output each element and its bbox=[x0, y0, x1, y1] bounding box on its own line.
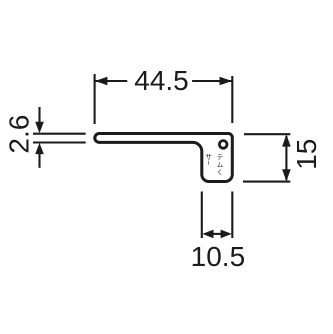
svg-text:2.6: 2.6 bbox=[3, 115, 34, 154]
svg-text:テ: テ bbox=[217, 154, 223, 161]
hole bbox=[219, 141, 227, 149]
bottom dimension 10.5 bbox=[202, 192, 233, 239]
svg-text:44.5: 44.5 bbox=[134, 65, 189, 96]
svg-text:15: 15 bbox=[291, 139, 322, 170]
top dimension 44.5 bbox=[95, 74, 233, 124]
left dimension 2.6 bbox=[33, 107, 86, 168]
svg-text:サ: サ bbox=[205, 153, 212, 161]
part outline (L-shaped lever profile) bbox=[95, 134, 233, 182]
svg-text:10.5: 10.5 bbox=[191, 241, 246, 272]
right dimension 15 bbox=[243, 134, 290, 181]
svg-text:く: く bbox=[217, 169, 223, 176]
svg-text:ム: ム bbox=[217, 162, 223, 169]
